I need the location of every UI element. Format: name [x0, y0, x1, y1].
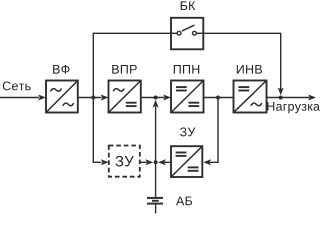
junction node C charger bus — [154, 160, 158, 164]
symbol VF AC bottom-right — [63, 103, 73, 106]
arrowhead output to load — [308, 95, 316, 101]
symbol ZU DC top-left — [176, 153, 187, 156]
block BK bypass contactor — [171, 18, 203, 50]
label АБ — [176, 197, 192, 206]
switch lever — [182, 25, 195, 31]
wire junction B row — [141, 97, 165, 99]
wire PPN to INV — [204, 97, 234, 99]
arrowhead solid charger into junction C (left) — [158, 159, 166, 165]
wire dashed charger to junction C — [140, 161, 147, 163]
wire bypass from BK down to output — [203, 33, 280, 90]
battery AB plates — [147, 198, 163, 204]
switch stub left — [171, 32, 177, 34]
label ППН — [174, 65, 199, 74]
wire battery bottom lead — [155, 204, 157, 214]
arrowhead dashed charger into junction C — [145, 159, 153, 165]
label ИНВ — [237, 65, 262, 74]
wire mains input — [0, 97, 39, 99]
wire battery bus vertical — [155, 107, 157, 198]
block VF input filter — [46, 81, 78, 113]
symbol PPN DC top-left — [176, 87, 187, 90]
label ВФ — [53, 65, 69, 74]
label ЗУ above solid charger — [180, 127, 195, 136]
label Нагрузка — [267, 102, 320, 113]
arrowhead into VPR — [101, 95, 109, 101]
symbol VF AC top-left — [51, 89, 61, 92]
arrowhead mains into VF — [38, 95, 46, 101]
switch contact right circle — [193, 31, 197, 35]
wire mains to dashed charger — [93, 98, 101, 163]
symbol PPN DC bottom-right — [188, 103, 199, 106]
junction node D after PPN — [216, 96, 220, 100]
junction node A after VF — [91, 96, 95, 100]
junction node B after VPR — [154, 96, 158, 100]
arrowhead DC bus into solid charger (left) — [203, 159, 211, 165]
label БК — [181, 1, 196, 10]
block PPN DC-DC converter — [171, 81, 204, 113]
symbol INV AC bottom-right — [251, 103, 261, 106]
symbol VPR DC bottom-right — [126, 103, 137, 106]
arrowhead into dashed charger — [101, 159, 109, 165]
wire bypass riser left — [93, 33, 171, 97]
label ВПР — [112, 65, 136, 74]
wire solid charger output to junction C — [165, 161, 172, 163]
block INV inverter — [234, 81, 267, 113]
block ZU charger (solid) — [171, 146, 202, 177]
label Сеть — [3, 81, 31, 90]
arrowhead battery bus up into DC link — [153, 100, 159, 108]
symbol INV DC top-left — [238, 87, 249, 90]
block ZU optional charger (dashed) — [109, 146, 140, 177]
switch contact left circle — [177, 31, 181, 35]
switch stub right — [197, 32, 204, 34]
wire VF to junction A — [78, 97, 102, 99]
arrowhead into PPN — [163, 95, 171, 101]
symbol VPR AC top-left — [114, 89, 124, 92]
block VPR rectifier — [109, 81, 141, 113]
label ЗУ in dashed box — [115, 156, 133, 167]
wire INV to load — [266, 97, 310, 99]
wire DC bus from PPN junction down to charger — [210, 98, 219, 163]
junction node E after INV — [279, 96, 283, 100]
arrowhead bypass down into output junction — [278, 88, 284, 96]
symbol ZU DC bottom-right — [188, 167, 199, 170]
